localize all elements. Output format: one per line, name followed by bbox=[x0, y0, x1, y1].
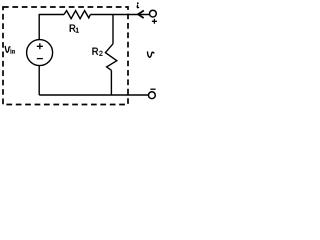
wire: top right segment to output terminal bbox=[90, 14, 149, 16]
label R1 bbox=[70, 25, 79, 33]
wire: source top lead bbox=[38, 15, 40, 40]
resistor R2 bbox=[105, 15, 116, 96]
voltage source vin (circle with polarity) bbox=[27, 40, 53, 66]
wire: top left segment bbox=[39, 14, 64, 16]
node: bottom output terminal bbox=[149, 92, 156, 99]
label R2 bbox=[93, 48, 103, 56]
dashed box (two-terminal network boundary) bbox=[3, 7, 128, 105]
label + (port polarity) bbox=[152, 19, 157, 24]
label - (port polarity) bbox=[150, 88, 155, 90]
label v (port voltage) bbox=[148, 52, 154, 58]
wire: bottom segment to output terminal bbox=[39, 94, 148, 96]
current arrow (direction of i) bbox=[138, 11, 144, 19]
wire: source bottom lead bbox=[38, 66, 40, 95]
resistor R1 bbox=[64, 11, 90, 19]
label vin bbox=[5, 46, 15, 53]
label i bbox=[137, 2, 139, 7]
node: top output terminal bbox=[150, 10, 157, 17]
